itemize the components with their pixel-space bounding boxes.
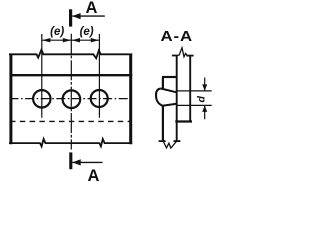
svg-text:d: d — [195, 96, 207, 103]
svg-text:A-A: A-A — [161, 29, 194, 45]
svg-text:(e): (e) — [50, 26, 64, 38]
svg-text:A: A — [86, 0, 98, 17]
svg-text:A: A — [88, 167, 100, 181]
svg-text:(e): (e) — [80, 26, 94, 38]
